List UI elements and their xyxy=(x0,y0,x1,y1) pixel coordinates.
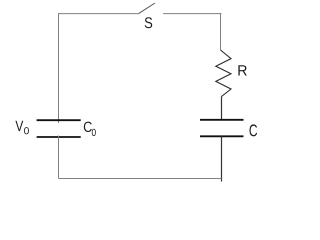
capacitor C0 top plate xyxy=(37,119,81,121)
wire bottom horizontal xyxy=(59,178,222,180)
wire right vertical (capacitor C to bottom, slight overshoot below corner) xyxy=(221,136,223,181)
capacitor label C of C0 xyxy=(84,122,92,132)
source label V of V0 xyxy=(15,121,23,131)
capacitor C bottom plate xyxy=(200,135,244,137)
switch S label xyxy=(145,17,153,28)
subscript 0 of V0 xyxy=(24,127,29,134)
wire right vertical (corner down to resistor) xyxy=(220,13,222,50)
resistor R label xyxy=(238,65,246,75)
wire top horizontal (left section to switch hinge) xyxy=(59,13,140,15)
switch S blade (open, rising to the right) xyxy=(139,3,155,13)
wire left vertical (top corner down through capacitor C0 top plate) xyxy=(58,13,60,123)
wire top horizontal (right contact to top-right corner) xyxy=(163,13,222,15)
resistor R zigzag xyxy=(216,50,231,97)
capacitor C top plate xyxy=(200,119,244,121)
capacitor C label xyxy=(250,124,258,136)
subscript 0 of C0 xyxy=(92,129,96,136)
wire right vertical (resistor to capacitor C) xyxy=(221,97,223,120)
wire left vertical (capacitor C0 bottom plate to bottom corner) xyxy=(58,136,60,179)
capacitor C0 bottom plate xyxy=(37,136,81,138)
